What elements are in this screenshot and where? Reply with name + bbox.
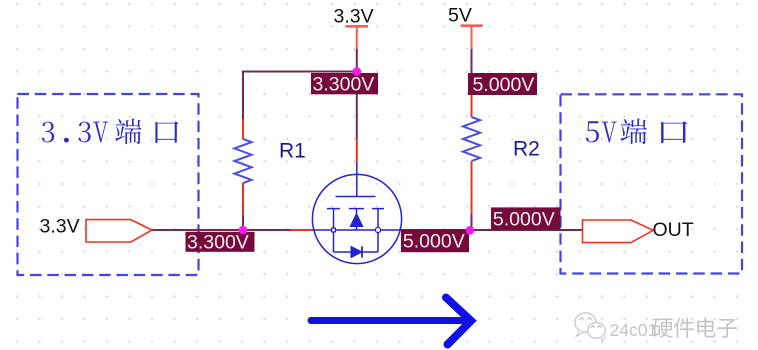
svg-text:R1: R1 [279, 140, 306, 163]
junction node (R1 top / gate) [353, 67, 362, 76]
net label 3.300V (gate) [311, 73, 378, 96]
Q1 source pin marker (square) [332, 228, 336, 232]
svg-text:3.3V: 3.3V [40, 216, 80, 238]
junction node (R2 bottom / drain wire) [466, 226, 475, 235]
svg-text:5.000V: 5.000V [403, 231, 465, 253]
wire R2 bottom lead [471, 161, 473, 214]
wire 3.3V rail down [356, 26, 358, 49]
net label 3.300V (source) [186, 232, 255, 254]
svg-text:3.300V: 3.300V [187, 232, 249, 254]
resistor R2 [463, 117, 480, 161]
svg-text:5.000V: 5.000V [473, 74, 535, 96]
svg-text:5V: 5V [448, 5, 472, 27]
svg-text:3.300V: 3.300V [313, 74, 375, 96]
watermark logo (chat bubbles) [575, 313, 606, 341]
wire 5V side horizontal [402, 229, 583, 231]
svg-text:24c01: 24c01 [610, 320, 658, 340]
net label 5.000V (out) [491, 207, 561, 230]
svg-text:5.000V: 5.000V [493, 208, 555, 230]
label 5V端口 [586, 119, 687, 145]
wire R1 bottom lead [242, 183, 244, 215]
svg-text:OUT: OUT [653, 219, 694, 241]
Q1 body diode [351, 246, 362, 257]
wire 3.3V side horizontal [152, 229, 290, 231]
svg-text:R2: R2 [513, 138, 540, 161]
wire R1 top horizontal [243, 72, 357, 120]
arrow (level shift direction) [311, 298, 471, 345]
label 3.3V端口 [42, 119, 179, 145]
net label 5.000V (rail) [468, 73, 537, 96]
wire 5V rail down to R2 [471, 26, 473, 49]
connector 3.3V (input port) [86, 220, 152, 242]
resistor R1 [234, 139, 251, 183]
connector OUT (output port) [583, 220, 654, 243]
Q1 drain pin marker (circle) [375, 227, 380, 232]
net label 5.000V (drain) [401, 229, 469, 252]
port box 3.3V (dashed) [18, 94, 199, 275]
junction node (R1 bottom / source wire) [239, 226, 248, 235]
transistor Q1 (N-MOSFET) [312, 162, 401, 264]
Q1 substrate arrow [350, 214, 363, 227]
svg-text:3.3V: 3.3V [334, 6, 374, 28]
port box 5V (dashed) [561, 94, 743, 273]
